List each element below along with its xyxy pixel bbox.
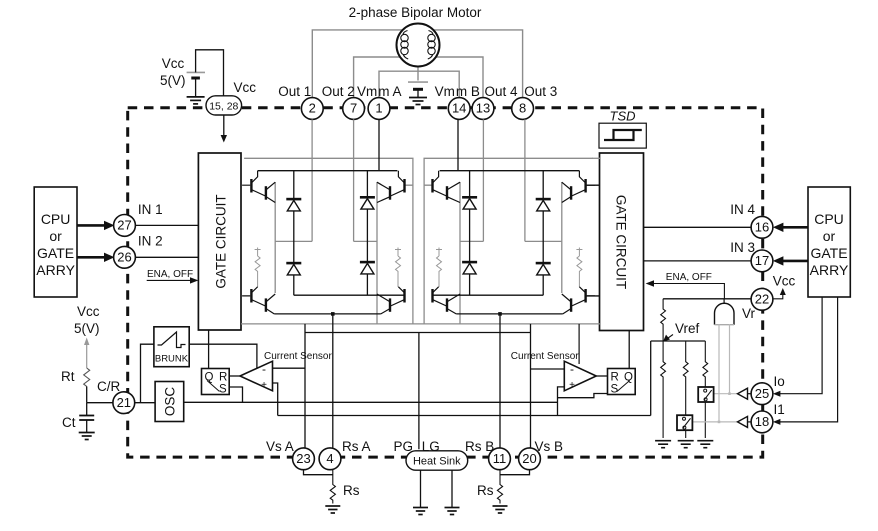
svg-text:R: R — [219, 372, 227, 384]
svg-text:GATE CIRCUIT: GATE CIRCUIT — [614, 195, 629, 289]
Vmm supply battery plate - — [413, 88, 423, 91]
Vcc supply battery plate + — [187, 71, 205, 73]
svg-text:ARRY: ARRY — [810, 262, 849, 278]
svg-text:Current Sensor: Current Sensor — [511, 351, 579, 362]
svg-text:R: R — [611, 372, 619, 384]
wire C/R node to pin 21 — [87, 402, 113, 404]
transistor Q4 (bottom-right darlington) — [377, 287, 404, 314]
resistor divider leg 1 — [661, 341, 666, 438]
Vmm supply battery (motor supply) plate + — [408, 81, 428, 83]
wire Vref node line — [651, 341, 706, 416]
svg-text:2: 2 — [309, 101, 316, 116]
wire comparator A plus input down to Vref line — [273, 383, 278, 416]
svg-text:-: - — [262, 362, 266, 376]
svg-text:5(V): 5(V) — [160, 73, 186, 88]
motor winding B (coil) — [428, 31, 435, 60]
ground (PG) — [413, 508, 428, 515]
svg-text:IN 4: IN 4 — [730, 202, 755, 217]
flip-flop FF1 (Q R S) — [202, 369, 230, 395]
node Out 2 (gray wires pin7 to bridge) — [354, 119, 377, 324]
wire C/R branch up to BRUNK input — [141, 344, 154, 403]
resistor (gray base bleed, right) — [395, 248, 401, 288]
wire Vs A pin 23 riser — [304, 324, 306, 448]
junction Rs B tap on bottom rail — [498, 312, 502, 316]
svg-text:Vcc: Vcc — [234, 80, 257, 95]
svg-text:16: 16 — [755, 220, 769, 235]
transistor Q3 (top-right darlington) — [377, 171, 404, 203]
svg-text:GATE: GATE — [37, 245, 74, 261]
svg-text:TSD: TSD — [610, 109, 636, 124]
svg-text:+: + — [261, 380, 267, 391]
pin 27 — [114, 215, 136, 237]
wire Vref reference line — [278, 415, 651, 417]
pin 21 — [113, 392, 135, 414]
svg-text:4: 4 — [326, 451, 333, 466]
motor winding A (coil) — [401, 31, 408, 60]
wire gate circuit to flip-flop (right) — [628, 331, 630, 369]
svg-text:or: or — [49, 228, 62, 244]
CPU or GATE ARRY box (left) — [34, 187, 77, 297]
wire battery to ground — [417, 89, 419, 97]
gate circuit U2 (right) box — [600, 153, 644, 331]
wire center ground bus to heat sink — [305, 333, 531, 450]
pin 17 — [751, 250, 773, 272]
pin 11 — [489, 448, 511, 470]
wire gate circuit to pin 16 — [644, 226, 752, 228]
wire FF1 S to OSC line — [229, 387, 242, 402]
svg-text:BRUNK: BRUNK — [155, 354, 189, 365]
buffer triangle Io — [738, 388, 748, 399]
ground (Rs B) — [493, 506, 508, 513]
pin 13 — [472, 98, 494, 120]
pin 20 — [519, 448, 541, 470]
wire Vmm A rail — [258, 119, 398, 170]
pin 26 — [114, 246, 136, 268]
svg-text:21: 21 — [117, 395, 131, 410]
junction dots (gray) — [728, 392, 731, 395]
CPU or GATE ARRY box (right) — [808, 187, 850, 297]
svg-text:OSC: OSC — [163, 387, 178, 417]
svg-text:Rs B: Rs B — [465, 439, 494, 454]
wire BRUNK output to comparator — [189, 344, 257, 368]
svg-text:13: 13 — [476, 101, 490, 116]
wire ENA OFF into gate circuit (arrow) — [147, 279, 193, 281]
svg-text:2-phase Bipolar Motor: 2-phase Bipolar Motor — [349, 5, 482, 20]
svg-text:ENA, OFF: ENA, OFF — [147, 269, 193, 280]
resistor divider leg 3 — [703, 341, 708, 438]
svg-text:Io: Io — [774, 374, 785, 389]
OSC block — [155, 382, 184, 422]
ground (Vcc supply) — [187, 97, 205, 104]
wire Out3 motor to pin 8 — [433, 30, 522, 98]
diode D1 / D2 column (left) — [294, 171, 404, 296]
wire gray link between gate circuits — [241, 323, 600, 325]
svg-text:Vref: Vref — [675, 321, 700, 336]
ground (Ct) — [79, 433, 95, 440]
svg-text:CPU: CPU — [814, 211, 844, 227]
wire heat sink to grounds — [421, 470, 453, 507]
svg-text:Rs: Rs — [343, 483, 360, 498]
wire motor center tap to Vmm rail — [417, 66, 419, 81]
svg-text:or: or — [823, 228, 836, 244]
wire gate circuit to flip-flop (left) — [208, 330, 210, 369]
svg-text:S: S — [219, 384, 227, 396]
ground (divider leg 2) — [678, 441, 694, 448]
buffer amp (dome) fed from pin 22 — [715, 303, 735, 324]
analog switch SW1 (Io) — [698, 387, 713, 402]
svg-text:Vcc: Vcc — [162, 56, 185, 71]
svg-text:ARRY: ARRY — [36, 262, 75, 278]
wire pin 22 to Vref resistor network — [663, 298, 751, 300]
buffer triangle I1 — [738, 416, 748, 427]
node Out 1 (gray wires pin2 to bridge) — [275, 119, 312, 293]
resistor divider leg 2 — [683, 341, 688, 438]
wire CPU to pin 16 (arrow) — [780, 226, 808, 229]
wire patch base lines to right gate box — [586, 185, 600, 296]
wire pin 22 branch into dome — [723, 299, 725, 305]
wire ENA OFF to gate circuit (arrow) — [652, 284, 725, 299]
wire pin 27 to gate circuit — [135, 224, 198, 226]
svg-text:Vs A: Vs A — [266, 439, 294, 454]
ground (divider leg 3) — [697, 441, 713, 448]
svg-text:18: 18 — [755, 414, 769, 429]
wire gray dome output to Io select — [719, 324, 730, 422]
svg-text:1: 1 — [375, 101, 382, 116]
svg-text:GATE CIRCUIT: GATE CIRCUIT — [214, 194, 229, 288]
wire pin 20 to Rs B sense resistor — [500, 470, 530, 475]
pin 2 — [301, 98, 323, 120]
analog switch SW2 (I1) — [677, 415, 692, 430]
svg-text:Out 2: Out 2 — [322, 84, 355, 99]
wire gray switch to buffer Io — [714, 393, 738, 395]
wire Vmm rail to pins 1 and 14 — [379, 71, 459, 98]
svg-text:IN 2: IN 2 — [138, 234, 163, 249]
wire comparator A output to FF1 R — [229, 375, 240, 377]
svg-text:Vr: Vr — [742, 306, 756, 321]
motor M (2-phase bipolar) — [397, 24, 440, 67]
wire pin 26 to gate circuit — [135, 256, 198, 258]
resistor (gray base bleed, left) — [255, 248, 261, 288]
wire CPU to pin 26 (arrow) — [77, 256, 107, 259]
wire CPU to pin 25 (Io) — [777, 297, 822, 394]
pin 4 — [319, 448, 341, 470]
pin 22 — [751, 288, 773, 310]
diode D3 / D4 column (right) — [366, 171, 368, 296]
pin 23 — [293, 448, 315, 470]
wire gate circuit to pin 17 — [644, 260, 752, 262]
svg-text:Heat Sink: Heat Sink — [413, 456, 461, 468]
svg-text:Vcc: Vcc — [77, 304, 100, 319]
svg-text:Rs A: Rs A — [342, 439, 371, 454]
svg-text:22: 22 — [755, 292, 769, 307]
ground (divider leg 1) — [655, 441, 671, 448]
transistor Q1 (top-left darlington) — [242, 171, 275, 203]
wire Rs A pin 4 riser — [332, 314, 334, 448]
wire FF2 S to OSC line — [558, 394, 608, 398]
ground (motor supply) — [409, 98, 427, 105]
wire comparator B plus input to Vref line — [558, 387, 565, 416]
IC package dashed boundary — [128, 108, 763, 457]
ground (Rs A) — [325, 506, 340, 513]
svg-text:11: 11 — [493, 451, 507, 466]
wire OSC output line — [184, 401, 558, 403]
svg-text:GATE: GATE — [810, 245, 847, 261]
wire Rt to C/R node — [86, 386, 88, 402]
svg-text:15, 28: 15, 28 — [209, 101, 238, 113]
svg-text:IN 3: IN 3 — [730, 240, 755, 255]
transistor Q2 (bottom-left darlington) — [242, 287, 275, 314]
H-bridge phase B (right, mirrored copy) — [424, 119, 595, 324]
pin 15,28 (Vcc) — [206, 96, 242, 115]
pin 25 — [751, 383, 773, 405]
svg-text:ENA, OFF: ENA, OFF — [666, 272, 712, 283]
TSD block (thermal shutdown) — [599, 123, 646, 148]
pin 8 — [512, 98, 534, 120]
wire CPU to pin 17 (arrow) — [780, 260, 808, 263]
svg-text:Out 4: Out 4 — [485, 84, 519, 99]
gate circuit U1 (left) box — [198, 153, 241, 330]
svg-text:-: - — [570, 362, 574, 376]
heat sink tab (PG LG) — [406, 451, 468, 470]
junction Rs A tap on bottom rail — [331, 312, 335, 316]
wire Vs B pin 20 riser — [530, 324, 532, 448]
svg-text:17: 17 — [755, 253, 769, 268]
wire pin 15,28 into chip with arrow — [223, 115, 225, 137]
wire buffer to pin 18 — [748, 421, 752, 423]
wire Out1 motor to pin 2 — [312, 30, 402, 98]
svg-text:8: 8 — [519, 101, 526, 116]
flip-flop FF2 (R Q S) — [608, 369, 636, 395]
wire Ct to ground — [86, 420, 88, 432]
svg-text:I1: I1 — [774, 402, 785, 417]
svg-text:14: 14 — [452, 101, 466, 116]
wire comparator B minus input to Vs B line — [531, 368, 565, 370]
wire Out4 motor to pin 13 — [436, 57, 484, 98]
wire Vcc arrow above Rt — [86, 344, 88, 368]
svg-text:Out 3: Out 3 — [524, 84, 557, 99]
wire Vcc battery to pin 15,28 — [196, 50, 224, 96]
wire buffer to pin 25 — [748, 393, 752, 395]
svg-text:Vcc: Vcc — [773, 274, 796, 289]
wire gray switch to buffer I1 — [692, 421, 737, 423]
wire pin 23 to Rs A sense resistor — [304, 470, 333, 475]
wire pin 21 to OSC — [135, 402, 155, 404]
pin 14 — [448, 98, 470, 120]
svg-text:25: 25 — [755, 386, 769, 401]
H-bridge phase A (left) — [242, 119, 413, 324]
svg-text:Current Sensor: Current Sensor — [264, 351, 332, 362]
wire bottom rail (emitters) — [274, 313, 381, 315]
wire comparator A minus input to Vs A line — [273, 367, 306, 369]
BRUNK sawtooth symbol — [158, 332, 186, 348]
svg-text:Rt: Rt — [61, 369, 75, 384]
svg-text:C/R: C/R — [97, 379, 121, 394]
pin 1 — [368, 98, 390, 120]
pin 16 — [751, 216, 773, 238]
svg-text:+: + — [569, 380, 575, 391]
svg-text:23: 23 — [296, 451, 310, 466]
svg-text:CPU: CPU — [41, 211, 71, 227]
svg-text:26: 26 — [117, 250, 131, 265]
svg-text:IN 1: IN 1 — [138, 202, 163, 217]
svg-text:Out 1: Out 1 — [278, 84, 311, 99]
wire pin 22 Vcc arrow — [773, 294, 783, 299]
resistor Rs (B) — [497, 470, 502, 504]
svg-text:S: S — [611, 384, 619, 396]
svg-text:Vmm B: Vmm B — [435, 84, 480, 99]
ground (LG) — [445, 508, 460, 515]
wire C/R node to Ct — [86, 403, 88, 415]
wire CPU to pin 18 (I1) — [777, 297, 838, 422]
wire Out2 motor to pin 7 — [354, 57, 401, 98]
wire battery minus to ground — [195, 78, 197, 96]
svg-text:Rs: Rs — [477, 483, 494, 498]
svg-text:27: 27 — [117, 218, 131, 233]
pin 7 — [343, 98, 365, 120]
svg-text:5(V): 5(V) — [74, 321, 100, 336]
wire gray gate drive rail to top-right pair — [244, 158, 413, 324]
svg-text:Vmm A: Vmm A — [357, 84, 402, 99]
BRUNK block — [154, 327, 189, 367]
wire gray link down to comparator B — [578, 324, 580, 364]
wire comparator B output to FF2 R — [596, 375, 607, 377]
svg-text:7: 7 — [350, 101, 357, 116]
svg-text:Ct: Ct — [62, 415, 76, 430]
wire CPU to pin 27 (arrow) — [77, 224, 107, 227]
Vcc supply battery plate - — [191, 77, 200, 80]
resistor Rs (A) — [330, 470, 335, 504]
pin 18 — [751, 411, 773, 433]
svg-text:20: 20 — [522, 451, 536, 466]
wire patch gray rail to right gate box — [592, 157, 600, 159]
resistor R (Vcc to Vref) — [661, 299, 666, 341]
wire Rs B pin 11 riser — [499, 314, 501, 448]
